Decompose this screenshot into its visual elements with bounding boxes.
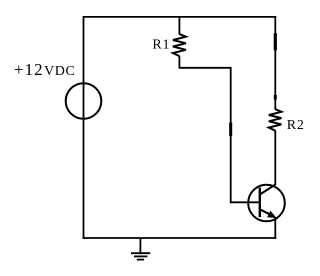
transistor Q1 body [248,185,285,222]
wire R1 bottom to transistor base [179,56,259,203]
resistor R2 [269,109,282,131]
ground bar 1 [131,252,150,254]
voltage source V1 [66,83,102,119]
label +12VDC [14,60,75,79]
svg-text:R2: R2 [287,118,305,133]
resistor R1 [173,34,186,56]
ground bar 3 [137,259,144,261]
svg-text:R1: R1 [152,38,170,53]
label R2 [287,118,305,133]
wire right rail top [274,16,276,110]
wire R1 branch [178,17,180,35]
svg-text:+12VDC: +12VDC [14,60,75,79]
wire overlap segment on right rail [274,33,277,50]
label R1 [152,38,170,53]
wire R2 bottom to collector [274,130,276,185]
ground bar 2 [134,255,147,257]
ground stub [139,238,141,253]
wire left rail [83,17,85,239]
wire overlap segment on base branch [229,123,232,137]
wire emitter to bottom rail [274,217,276,239]
wire top rail [83,16,277,18]
wire overlap stub above R2 [274,95,277,100]
transistor Q1 emitter diagonal with arrow [260,209,276,217]
transistor Q1 collector diagonal [260,185,275,195]
transistor Q1 base bar [259,188,261,218]
wire bottom rail [83,237,277,239]
